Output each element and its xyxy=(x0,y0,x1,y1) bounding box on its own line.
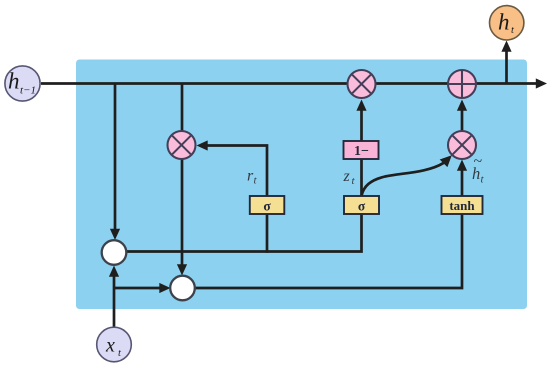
multiply node reset gate xyxy=(168,131,196,159)
wire z curve to candidate multiply xyxy=(362,163,444,196)
wire main output arrowhead xyxy=(536,78,547,88)
svg-text:z: z xyxy=(343,168,351,185)
wire candidate multiply to plus xyxy=(461,110,464,132)
label r_t xyxy=(247,168,258,187)
node B concat circle xyxy=(170,276,195,301)
svg-text:h: h xyxy=(498,10,510,35)
wire 1-minus to multiply xyxy=(360,110,363,142)
wire concat output to sigma z xyxy=(126,214,362,252)
svg-text:x: x xyxy=(105,335,115,357)
wire drop to reset multiply xyxy=(181,84,184,133)
cell body background xyxy=(76,60,527,310)
wire node B to tanh xyxy=(194,214,462,288)
input h_{t-1} xyxy=(5,66,40,101)
sigma box r gate xyxy=(250,196,284,214)
svg-text:t−1: t−1 xyxy=(20,85,36,97)
label h~_t xyxy=(472,153,485,186)
svg-text:σ: σ xyxy=(263,198,271,213)
node A concat circle xyxy=(102,240,127,265)
wire sigma r input stem xyxy=(266,214,269,253)
svg-text:h: h xyxy=(472,164,480,183)
wire r_t from sigma to multiply xyxy=(206,146,267,197)
svg-text:1−: 1− xyxy=(354,144,369,159)
wire reset multiply to node B xyxy=(181,158,184,267)
sigma box z gate xyxy=(344,196,379,214)
svg-text:tanh: tanh xyxy=(449,198,475,213)
wire output branch up to h_t xyxy=(505,51,508,84)
output h_t xyxy=(490,6,524,40)
wire z up to 1-minus xyxy=(360,158,363,197)
input x_t xyxy=(97,327,132,362)
multiply node candidate xyxy=(448,131,476,159)
wire x_t input up to node A xyxy=(113,276,116,328)
wire x_t branch to node B xyxy=(114,287,161,290)
label z_t xyxy=(343,168,356,187)
wire main h line xyxy=(41,82,537,85)
svg-text:h: h xyxy=(8,69,20,94)
one-minus box xyxy=(344,141,379,159)
wire tanh to candidate multiply xyxy=(461,170,464,197)
multiply node forget (1-z) xyxy=(348,70,376,98)
tanh box xyxy=(442,196,483,214)
add node xyxy=(448,70,476,98)
svg-text:σ: σ xyxy=(358,198,366,213)
wire drop to concat node A xyxy=(114,84,117,232)
